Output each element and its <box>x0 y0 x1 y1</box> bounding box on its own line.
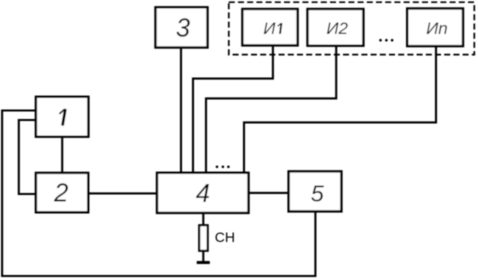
svg-text:2: 2 <box>53 179 68 207</box>
svg-text:И2: И2 <box>326 19 348 38</box>
svg-text:4: 4 <box>196 180 210 208</box>
svg-text:5: 5 <box>311 181 325 207</box>
svg-text:И: И <box>263 19 276 38</box>
svg-text:СН: СН <box>215 229 235 245</box>
svg-text:3: 3 <box>176 14 190 42</box>
svg-text:Иn: Иn <box>426 19 448 38</box>
